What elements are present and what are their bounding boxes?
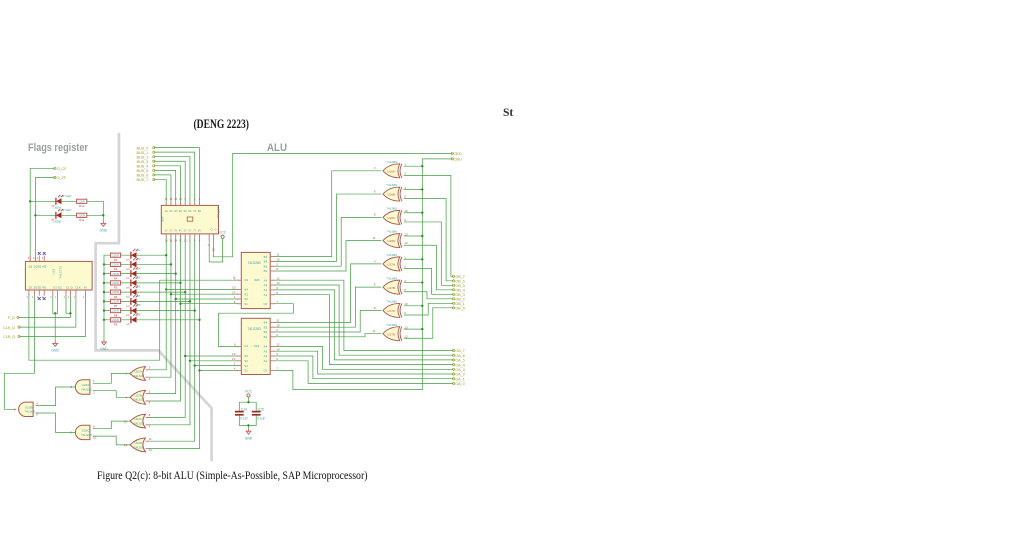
xor-gate U17A 74LS86: [383, 257, 400, 271]
ground LED column: [102, 341, 107, 346]
wire LED B row: [35, 214, 103, 216]
svg-text:11: 11: [276, 253, 279, 257]
resistor R8: [110, 308, 120, 312]
wire U23C output to U23B input: [36, 413, 76, 432]
ground U19: [53, 342, 58, 347]
svg-text:220R: 220R: [112, 281, 119, 285]
resistor R3: [110, 262, 120, 266]
svg-text:S1: S1: [244, 302, 248, 306]
svg-text:A2: A2: [264, 354, 268, 358]
capacitor C14 0.1uF: [235, 412, 244, 415]
wire net F_D: [19, 296, 71, 318]
svg-text:D3: D3: [137, 257, 141, 261]
svg-text:D6: D6: [137, 285, 141, 289]
svg-text:U17D: U17D: [387, 332, 396, 336]
svg-text:R4: R4: [114, 276, 118, 280]
svg-text:220R: 220R: [112, 272, 119, 276]
svg-text:B1: B1: [264, 269, 268, 273]
svg-text:CLK_D: CLK_D: [3, 325, 15, 330]
ground capacitors: [246, 430, 251, 435]
svg-text:A1: A1: [264, 293, 268, 297]
wire LED row 3 (sum bit 4): [104, 282, 180, 284]
wire OR4 input stubs: [146, 441, 150, 448]
and-gate U23A 74LS08: [75, 380, 90, 394]
svg-text:220R: 220R: [78, 213, 85, 217]
svg-text:BUS_7: BUS_7: [137, 177, 150, 182]
power VCC at capacitors: [247, 394, 250, 397]
xor-gate U16D 74LS86: [383, 234, 400, 248]
ground flags LED pair: [101, 222, 106, 227]
svg-text:74LS86: 74LS86: [386, 300, 397, 304]
resistor R4: [110, 272, 120, 276]
wire U16D output to adder B input: [275, 241, 381, 271]
svg-text:6Y: 6Y: [188, 228, 191, 232]
svg-text:74LS08: 74LS08: [81, 387, 92, 391]
svg-text:74LS08: 74LS08: [81, 433, 92, 437]
wire U23A output to U23B input: [36, 387, 76, 406]
svg-text:ALU: ALU: [267, 142, 287, 154]
adder U20 74LS283 body: [241, 252, 270, 308]
wire net OA_5: [275, 290, 453, 360]
svg-text:10: 10: [232, 352, 236, 356]
resistor R9: [110, 318, 120, 322]
wire capacitor net VCC side: [239, 397, 256, 411]
svg-text:D: D: [71, 285, 73, 289]
wire net BUS_1: [155, 152, 195, 201]
wire U17D output to adder B input: [275, 334, 381, 337]
adder U21 right pin stubs: [270, 321, 275, 323]
svg-text:2Y: 2Y: [169, 228, 172, 232]
wire net SUM6 vertical: [149, 238, 237, 378]
svg-text:R11: R11: [79, 218, 84, 222]
svg-text:D4: D4: [137, 266, 141, 270]
svg-text:U16D: U16D: [387, 239, 396, 243]
svg-text:74LS283: 74LS283: [248, 261, 261, 265]
svg-text:74LS32: 74LS32: [134, 445, 145, 449]
wire LED column ground rail: [103, 255, 105, 341]
wire carry U20.C0 to U21.C4: [218, 304, 293, 347]
svg-text:0.1uF: 0.1uF: [257, 417, 265, 421]
wire LED row 4 (sum bit 3): [104, 291, 185, 293]
svg-text:1Y: 1Y: [165, 228, 168, 232]
svg-text:15: 15: [276, 258, 280, 262]
wire net OA_7: [275, 280, 453, 350]
wire net CARRY to flags (U19 1D): [29, 280, 237, 360]
svg-text:D8: D8: [137, 303, 141, 307]
svg-text:O_ZF: O_ZF: [57, 175, 67, 180]
svg-text:LEDB: LEDB: [54, 220, 62, 224]
resistor R5: [110, 281, 120, 285]
svg-text:3A: 3A: [174, 209, 177, 213]
svg-text:O_CF: O_CF: [57, 166, 68, 171]
wire OR3 output to U23C input: [93, 421, 130, 429]
wire net SUM0 vertical: [149, 238, 237, 449]
svg-text:U16A: U16A: [387, 169, 396, 173]
svg-text:74LS32: 74LS32: [134, 422, 145, 426]
LED D3: [131, 261, 137, 267]
svg-text:74LS173: 74LS173: [59, 266, 63, 279]
svg-text:GND: GND: [100, 347, 108, 351]
svg-text:A3: A3: [264, 283, 268, 287]
svg-text:74LS86: 74LS86: [386, 323, 397, 327]
svg-text:A1: A1: [264, 359, 268, 363]
wire net OB_7: [404, 175, 453, 276]
wire LED row 7 (sum bit 0): [104, 319, 199, 321]
LED LEDA (MYLED): [56, 198, 62, 204]
LED D6: [131, 289, 137, 295]
resistor R11: [77, 213, 87, 217]
svg-text:14: 14: [276, 347, 280, 351]
svg-text:11: 11: [372, 236, 375, 240]
svg-text:F_D: F_D: [8, 315, 15, 320]
svg-text:G: G: [211, 228, 213, 232]
svg-text:C0: C0: [263, 369, 267, 373]
svg-text:220R: 220R: [78, 199, 85, 203]
svg-text:12: 12: [404, 241, 408, 245]
svg-text:220R: 220R: [112, 263, 119, 267]
svg-text:U17C: U17C: [387, 309, 396, 313]
svg-text:14: 14: [276, 281, 280, 285]
svg-text:(DENG 2223): (DENG 2223): [194, 117, 250, 131]
svg-text:220R: 220R: [112, 299, 119, 303]
svg-text:CLK: CLK: [75, 285, 81, 289]
resistor R7: [110, 299, 120, 303]
no-connect X marks U19 top: [38, 252, 41, 255]
wire net SUM3 vertical: [149, 238, 237, 418]
wire net BUS_4: [155, 166, 181, 202]
LED D2: [131, 252, 137, 258]
svg-text:D2: D2: [137, 248, 141, 252]
svg-text:R2: R2: [114, 258, 118, 262]
svg-text:3D: 3D: [37, 285, 41, 289]
svg-text:U19: U19: [52, 269, 56, 275]
resistor R10: [77, 199, 87, 203]
svg-text:11: 11: [149, 437, 152, 441]
svg-text:G2: G2: [58, 285, 62, 289]
svg-text:U20: U20: [254, 278, 260, 282]
svg-text:12: 12: [276, 343, 280, 347]
buffer bottom pin stubs with numbers: [165, 234, 167, 238]
svg-text:B1: B1: [264, 335, 268, 339]
svg-text:G: G: [215, 228, 217, 232]
svg-text:8A: 8A: [198, 209, 201, 213]
svg-text:74LS86: 74LS86: [386, 276, 397, 280]
svg-text:C4: C4: [244, 278, 248, 282]
LED D9: [131, 317, 137, 323]
wire net ZERO to flags (U19 2D): [4, 296, 34, 410]
svg-text:MYLED: MYLED: [62, 208, 72, 212]
wire U16C output to adder B input: [275, 217, 381, 266]
svg-text:U21: U21: [254, 344, 260, 348]
svg-text:1D: 1D: [28, 285, 32, 289]
svg-text:R9: R9: [114, 323, 118, 327]
adder U20 right pin stubs: [270, 256, 275, 258]
wire net OA_2: [275, 351, 453, 374]
wire capacitor net GND side: [239, 416, 256, 431]
svg-text:7A: 7A: [193, 209, 196, 213]
wire OR3 input stubs: [146, 417, 150, 424]
svg-text:St: St: [503, 107, 513, 119]
adder U20 left pin stubs: [237, 279, 242, 281]
svg-text:74LS86: 74LS86: [386, 206, 397, 210]
LED LEDB (MYLED): [56, 212, 62, 218]
svg-text:S4: S4: [244, 288, 248, 292]
or-gate U22D 74LS32: [130, 438, 146, 452]
svg-text:A4: A4: [264, 345, 268, 349]
svg-text:OED: OED: [454, 151, 462, 156]
svg-text:220R: 220R: [112, 253, 119, 257]
svg-text:GND: GND: [100, 229, 108, 233]
wire net OED (output enable): [213, 153, 452, 256]
wire net O_ZF: [35, 178, 54, 262]
svg-text:R3: R3: [114, 267, 118, 271]
wire buffer G2 enable to VCC: [209, 238, 222, 262]
svg-text:A4: A4: [264, 278, 268, 282]
svg-text:0.1uF: 0.1uF: [240, 417, 248, 421]
svg-text:15: 15: [276, 323, 280, 327]
svg-text:74LS86: 74LS86: [386, 183, 397, 187]
svg-text:11: 11: [372, 329, 375, 333]
xor-gate U17B 74LS86: [383, 280, 400, 294]
wire net SUM5 vertical: [149, 238, 237, 394]
xor-gate U17C 74LS86: [383, 303, 400, 317]
svg-text:G1: G1: [53, 285, 57, 289]
xor-gate U16A 74LS86: [383, 164, 400, 178]
power VCC at buffer: [221, 235, 224, 238]
svg-text:OA_0: OA_0: [455, 381, 465, 386]
svg-text:MYLED: MYLED: [62, 194, 72, 198]
svg-text:S4: S4: [244, 354, 248, 358]
wire net SUM1 vertical: [149, 238, 237, 442]
wire net BUS_0: [155, 148, 200, 202]
svg-text:D5: D5: [137, 275, 141, 279]
svg-text:GND: GND: [245, 436, 253, 440]
LED D5: [131, 280, 137, 286]
wire U16B output to adder B input: [275, 194, 381, 261]
capacitor C15 0.1uF: [252, 412, 261, 415]
svg-text:A3: A3: [264, 349, 268, 353]
svg-text:CLR_D: CLR_D: [3, 334, 15, 339]
svg-text:220R: 220R: [112, 290, 119, 294]
wire OR2 output to U23A input: [93, 391, 130, 398]
svg-text:R7: R7: [114, 304, 118, 308]
and-gate U23C 74LS08: [75, 425, 90, 439]
svg-text:U17B: U17B: [387, 286, 395, 290]
wire net BUS_5: [155, 170, 176, 201]
resistor R6: [110, 290, 120, 294]
svg-text:10: 10: [232, 286, 236, 290]
wire OR4 output to U23C input: [93, 436, 130, 445]
svg-text:12: 12: [276, 276, 280, 280]
svg-text:R6: R6: [114, 295, 118, 299]
and-gate U23B 74LS08: [19, 402, 33, 416]
svg-text:5Y: 5Y: [184, 228, 187, 232]
svg-text:U16B: U16B: [387, 193, 395, 197]
svg-text:74LS86: 74LS86: [386, 253, 397, 257]
svg-text:220R: 220R: [112, 318, 119, 322]
svg-text:B2: B2: [264, 264, 268, 268]
svg-text:7Y: 7Y: [193, 228, 196, 232]
wire net SUM7 vertical: [149, 238, 237, 370]
LED D7: [131, 298, 137, 304]
xor-gate U16C 74LS86: [383, 210, 400, 224]
adder U21 left pin stubs: [237, 345, 242, 347]
xor-gate U17D 74LS86: [383, 327, 400, 341]
wire net OA_3: [275, 346, 453, 369]
svg-text:B4: B4: [264, 255, 268, 259]
svg-text:C4: C4: [244, 344, 248, 348]
svg-text:GND: GND: [51, 349, 59, 353]
buffer top pin stubs with numbers: [165, 202, 167, 206]
svg-text:74LS86: 74LS86: [386, 230, 397, 234]
divider between Flags register and ALU sections: [96, 133, 212, 461]
U19 bottom pin stubs: [28, 290, 30, 296]
svg-text:2A: 2A: [169, 209, 172, 213]
svg-text:C15: C15: [258, 407, 264, 411]
svg-text:Figure Q2(c): 8-bit ALU (Simpl: Figure Q2(c): 8-bit ALU (Simple-As-Possi…: [97, 468, 368, 482]
svg-text:13: 13: [232, 357, 236, 361]
resistor R2: [110, 253, 120, 257]
wire U19 G pins to ground: [53, 296, 58, 343]
wire net OA_4: [275, 295, 453, 365]
svg-text:S2: S2: [244, 297, 248, 301]
wire net OB_6: [404, 199, 453, 281]
svg-text:BUF: BUF: [161, 216, 165, 222]
wire OR1 input stubs: [146, 370, 150, 377]
wire U17B output to adder B input: [275, 287, 381, 327]
svg-text:12: 12: [404, 334, 408, 338]
wire net OB_3: [404, 268, 453, 294]
wire net OB_5: [404, 222, 453, 285]
svg-text:CL: CL: [66, 285, 70, 289]
wire net SUM4 vertical: [149, 238, 237, 401]
buffer IC U15 74LS244 body: [161, 205, 218, 234]
svg-text:13: 13: [232, 290, 236, 294]
svg-text:C0: C0: [263, 302, 267, 306]
svg-text:A2: A2: [264, 288, 268, 292]
svg-text:D9: D9: [137, 312, 141, 316]
svg-text:R8: R8: [114, 313, 118, 317]
svg-text:U16C: U16C: [387, 216, 396, 220]
svg-text:R5: R5: [114, 286, 118, 290]
svg-text:8Y: 8Y: [198, 228, 201, 232]
LED D8: [131, 308, 137, 314]
wire net OB_0: [404, 308, 453, 338]
svg-text:S3: S3: [244, 292, 248, 296]
svg-text:OB_0: OB_0: [455, 306, 465, 311]
svg-text:4A: 4A: [179, 209, 182, 213]
wire net BUS_7: [155, 179, 167, 201]
svg-text:4D: 4D: [42, 285, 46, 289]
wire LED row 1 (sum bit 6): [104, 263, 171, 265]
svg-text:U17A: U17A: [387, 262, 396, 266]
wire net OA_6: [275, 285, 453, 355]
wire OR2 input stubs: [146, 394, 150, 401]
svg-text:B3: B3: [264, 325, 268, 329]
svg-text:6A: 6A: [188, 209, 191, 213]
or-gate U22C 74LS32: [130, 414, 146, 428]
wire net O_CF: [30, 168, 54, 261]
svg-text:S2: S2: [244, 364, 248, 368]
wire net OA_0: [275, 361, 453, 384]
svg-text:4Y: 4Y: [179, 228, 182, 232]
wire net SUM2 vertical: [149, 238, 237, 425]
wire LED row 6 (sum bit 1): [104, 310, 195, 312]
wire net OB_2: [404, 292, 453, 299]
wire net BUS_6: [155, 175, 171, 202]
U19 top pin stubs: [29, 256, 31, 262]
LED D4: [131, 271, 137, 277]
svg-text:5A: 5A: [184, 209, 187, 213]
svg-text:VCC: VCC: [219, 231, 227, 235]
svg-text:R10: R10: [79, 204, 85, 208]
wire net BUS_3: [155, 161, 186, 201]
wire U17A output to adder B input: [275, 264, 381, 323]
wire net OA_1: [275, 356, 453, 379]
wire net OB_1: [404, 303, 453, 315]
svg-text:74LS86: 74LS86: [386, 160, 397, 164]
wire LED A row: [30, 200, 103, 202]
wire U17C output to adder B input: [275, 310, 381, 332]
or-gate U22B 74LS32: [130, 390, 146, 404]
adder U21 74LS283 body: [241, 318, 270, 374]
or-gate U22A 74LS32: [130, 367, 146, 381]
wire LED row 2 (sum bit 5): [104, 273, 176, 275]
wire flags LED ground rail: [102, 201, 104, 222]
svg-text:D7: D7: [137, 294, 141, 298]
wire net OSU / SU control: [275, 159, 452, 390]
svg-text:B2: B2: [264, 330, 268, 334]
svg-text:OSU: OSU: [454, 157, 462, 162]
svg-text:74LS244: 74LS244: [217, 205, 221, 218]
svg-text:74LS32: 74LS32: [134, 398, 145, 402]
no-connect X marks U19 bottom: [38, 297, 41, 300]
wire LED row 5 (sum bit 2): [104, 300, 190, 302]
svg-text:S1: S1: [244, 369, 248, 373]
svg-text:Flags register: Flags register: [28, 142, 88, 154]
svg-text:B4: B4: [264, 321, 268, 325]
register IC U19 74LS173 body: [25, 261, 92, 290]
wire net CLK_D: [20, 296, 76, 328]
svg-text:B3: B3: [264, 260, 268, 264]
wire LED row 0 (sum bit 7): [104, 254, 166, 256]
wire U16A output to adder B input: [275, 171, 381, 257]
wire OR1 output to U23A input: [93, 374, 130, 384]
svg-text:74LS08: 74LS08: [24, 410, 35, 414]
svg-text:74LS32: 74LS32: [134, 374, 145, 378]
svg-text:S3: S3: [244, 359, 248, 363]
svg-text:220R: 220R: [112, 309, 119, 313]
svg-text:74LS283: 74LS283: [248, 327, 261, 331]
wire net CLR_D: [20, 296, 86, 337]
svg-text:VCC: VCC: [245, 389, 253, 393]
svg-text:11: 11: [276, 319, 279, 323]
svg-text:3Y: 3Y: [174, 228, 177, 232]
svg-text:C14: C14: [241, 407, 247, 411]
xor-gate U16B 74LS86: [383, 187, 400, 201]
wire net BUS_2: [155, 157, 190, 202]
wire net OB_4: [404, 245, 453, 290]
svg-text:1A: 1A: [165, 209, 168, 213]
